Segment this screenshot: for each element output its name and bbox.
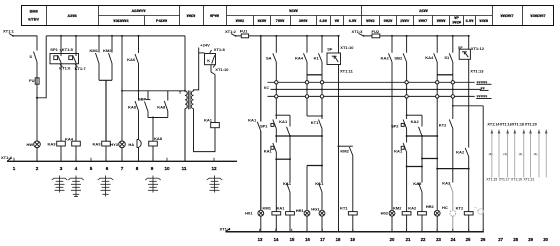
svg-text:27: 27 — [498, 237, 503, 242]
svg-text:4: 4 — [75, 166, 78, 171]
svg-text:¥¥¥¥¥: ¥¥¥¥¥ — [477, 79, 489, 84]
svg-text:KT1:5: KT1:5 — [62, 47, 74, 52]
svg-text:KM2: KM2 — [103, 48, 112, 53]
svg-text:HW: HW — [27, 142, 34, 147]
svg-text:XT1:21: XT1:21 — [524, 178, 535, 182]
svg-text:SF: SF — [458, 46, 463, 50]
svg-text:HA: HA — [128, 142, 134, 147]
svg-text:3: 3 — [60, 166, 63, 171]
svg-text:¥P¥¥: ¥P¥¥ — [210, 13, 220, 18]
svg-text:H01: H01 — [245, 211, 253, 216]
svg-text:25: 25 — [466, 237, 471, 242]
svg-text:KA1: KA1 — [283, 181, 292, 186]
svg-text:S: S — [29, 54, 32, 59]
svg-text:FU: FU — [29, 78, 34, 83]
svg-text:XT1:12: XT1:12 — [471, 46, 485, 51]
svg-text:24: 24 — [451, 237, 456, 242]
svg-text:26: 26 — [481, 237, 486, 242]
svg-text:5: 5 — [90, 166, 93, 171]
svg-text:HG1: HG1 — [311, 207, 320, 212]
svg-text:¥¥£¥¥7: ¥¥£¥¥7 — [501, 13, 514, 18]
svg-text:KA5: KA5 — [413, 181, 422, 186]
svg-text:¥¥¥¥: ¥¥¥¥ — [437, 18, 446, 23]
svg-text:KM1: KM1 — [90, 48, 99, 53]
svg-text:12: 12 — [211, 166, 217, 171]
svg-text:29: 29 — [528, 237, 533, 242]
svg-text:2¥¥V: 2¥¥V — [400, 18, 409, 23]
svg-text:17: 17 — [320, 237, 325, 242]
svg-text:FU2: FU2 — [372, 29, 380, 34]
svg-text:¥¥: ¥¥ — [335, 18, 340, 23]
svg-text:6-¥¥: 6-¥¥ — [466, 18, 475, 23]
svg-text:¥3¥£¥97: ¥3¥£¥97 — [530, 13, 545, 18]
svg-text:19: 19 — [350, 237, 355, 242]
svg-text:¥9¥2: ¥9¥2 — [366, 18, 375, 23]
svg-text:9¥2¥: 9¥2¥ — [384, 18, 393, 23]
svg-text:XT1:10: XT1:10 — [215, 67, 229, 72]
svg-text:28: 28 — [513, 237, 518, 242]
svg-text:3¥2¥: 3¥2¥ — [452, 20, 461, 25]
svg-text:XT1:17: XT1:17 — [499, 178, 510, 182]
svg-text:KA4: KA4 — [295, 55, 304, 60]
svg-text:KT1:7: KT1:7 — [75, 66, 87, 71]
svg-text:SP1: SP1 — [260, 124, 268, 129]
svg-text:KA2: KA2 — [408, 205, 417, 210]
svg-text:XT1:1: XT1:1 — [3, 29, 15, 34]
svg-text:8: 8 — [136, 166, 139, 171]
svg-text:13: 13 — [258, 237, 263, 242]
svg-text:6.¥¥: 6.¥¥ — [349, 18, 357, 23]
svg-text:XT1:3: XT1:3 — [352, 29, 364, 34]
svg-text:21: 21 — [406, 237, 411, 242]
svg-text:14: 14 — [274, 237, 279, 242]
svg-text:XT1:4: XT1:4 — [220, 227, 232, 232]
svg-text:15: 15 — [290, 237, 295, 242]
svg-text:KA1: KA1 — [264, 149, 273, 154]
svg-text:KA2: KA2 — [456, 149, 465, 154]
svg-text:(4): (4) — [519, 152, 523, 156]
svg-text:HR2: HR2 — [426, 204, 435, 209]
svg-text:18: 18 — [336, 237, 341, 242]
svg-text:SP2: SP2 — [391, 124, 399, 129]
svg-text:SB2: SB2 — [394, 55, 403, 60]
svg-text:KA3: KA3 — [47, 141, 56, 146]
svg-text:KA4: KA4 — [65, 136, 74, 141]
svg-text:KA1: KA1 — [276, 205, 285, 210]
svg-text:¥¥¥7: ¥¥¥7 — [419, 18, 428, 23]
svg-text:K1: K1 — [314, 55, 320, 60]
svg-text:XT1:20: XT1:20 — [525, 123, 537, 127]
svg-text:7: 7 — [121, 166, 124, 171]
svg-text:HY3: HY3 — [110, 142, 119, 147]
svg-text:4.8¥: 4.8¥ — [319, 18, 327, 23]
svg-text:¥¥£¥: ¥¥£¥ — [187, 13, 196, 18]
svg-text:SF: SF — [327, 47, 333, 52]
svg-text:23: 23 — [436, 237, 441, 242]
svg-text:9: 9 — [151, 166, 154, 171]
svg-text:6/7BV: 6/7BV — [28, 17, 39, 22]
svg-text:7¥¥¥: 7¥¥¥ — [276, 18, 285, 23]
svg-text:(4): (4) — [503, 152, 507, 156]
svg-text:H02: H02 — [381, 210, 389, 215]
svg-text:KA2: KA2 — [442, 181, 451, 186]
svg-text:(4): (4) — [534, 152, 538, 156]
svg-text:XT1:2: XT1:2 — [225, 29, 237, 34]
svg-text:KA2: KA2 — [411, 119, 420, 124]
svg-text:S1: S1 — [444, 55, 450, 60]
svg-text:XT1:18: XT1:18 — [512, 123, 524, 127]
svg-text:P4£¥¥: P4£¥¥ — [156, 18, 168, 23]
svg-text:¥4¥8: ¥4¥8 — [479, 18, 488, 23]
svg-text:XT1:10: XT1:10 — [340, 45, 354, 50]
svg-text:KA8: KA8 — [157, 105, 166, 110]
svg-text:XT1:15: XT1:15 — [486, 178, 497, 182]
svg-text:A£8¥V¥: A£8¥V¥ — [131, 8, 146, 13]
svg-text:10: 10 — [164, 166, 170, 171]
svg-text:¥¥¥¥¥: ¥¥¥¥¥ — [477, 94, 489, 99]
svg-text:¥£¥¥: ¥£¥¥ — [258, 18, 267, 23]
svg-text:KC: KC — [264, 86, 269, 90]
svg-text:KT2: KT2 — [439, 122, 447, 127]
svg-text:HC: HC — [442, 205, 448, 210]
svg-text:A3¥8: A3¥8 — [67, 13, 77, 18]
svg-text:22: 22 — [421, 237, 426, 242]
svg-text:1: 1 — [13, 166, 16, 171]
svg-text:¥¥: ¥¥ — [481, 86, 486, 91]
svg-text:KA3: KA3 — [92, 141, 101, 146]
svg-text:HR1: HR1 — [296, 208, 305, 213]
svg-text:KA4: KA4 — [425, 55, 434, 60]
svg-text:KM1: KM1 — [263, 205, 272, 210]
svg-text:KA6: KA6 — [127, 57, 136, 62]
svg-text:KM2: KM2 — [340, 149, 349, 154]
svg-text:KM2: KM2 — [393, 205, 402, 210]
svg-text:KT1:6: KT1:6 — [59, 66, 71, 71]
svg-text:K: K — [207, 58, 210, 63]
svg-text:KA2: KA2 — [381, 55, 390, 60]
svg-text:(4): (4) — [489, 152, 493, 156]
svg-text:KA1: KA1 — [248, 117, 257, 122]
svg-text:¥£¥¥: ¥£¥¥ — [289, 8, 298, 13]
svg-text:20: 20 — [390, 237, 395, 242]
svg-text:BM8: BM8 — [30, 8, 39, 13]
svg-text:XT1:19: XT1:19 — [511, 178, 522, 182]
svg-text:XT1:16: XT1:16 — [500, 123, 512, 127]
svg-text:SBP: SBP — [138, 96, 147, 101]
svg-text:FU1: FU1 — [240, 29, 248, 34]
svg-text:3¥9¥: 3¥9¥ — [299, 18, 308, 23]
svg-text:KA1: KA1 — [279, 119, 288, 124]
svg-text:6: 6 — [106, 166, 109, 171]
svg-text:2£¥¥: 2£¥¥ — [419, 8, 428, 13]
svg-text:XT1:13: XT1:13 — [470, 68, 484, 73]
svg-text:SA: SA — [266, 56, 272, 61]
svg-text:SP1: SP1 — [50, 47, 58, 52]
svg-text:XT1:4: XT1:4 — [1, 155, 13, 160]
svg-text:XT1:8: XT1:8 — [214, 47, 226, 52]
svg-text:KT1: KT1 — [311, 120, 319, 125]
svg-text:30: 30 — [543, 237, 548, 242]
svg-text:+24V: +24V — [200, 42, 210, 47]
svg-text:¥9¥2: ¥9¥2 — [236, 18, 245, 23]
svg-text:16: 16 — [305, 237, 310, 242]
svg-text:XT1:11: XT1:11 — [340, 69, 354, 74]
svg-text:11: 11 — [182, 166, 187, 171]
svg-text:2: 2 — [36, 166, 39, 171]
svg-text:¥3£8¥¥4: ¥3£8¥¥4 — [113, 18, 129, 23]
svg-text:KA8: KA8 — [154, 136, 163, 141]
svg-text:KA1: KA1 — [204, 118, 213, 123]
svg-text:KA1: KA1 — [315, 181, 324, 186]
svg-text:XT1:14: XT1:14 — [487, 123, 500, 127]
svg-text:KT1: KT1 — [340, 205, 348, 210]
svg-text:KA1: KA1 — [394, 149, 403, 154]
svg-text:KA8: KA8 — [128, 104, 137, 109]
svg-text:KT2: KT2 — [456, 205, 464, 210]
